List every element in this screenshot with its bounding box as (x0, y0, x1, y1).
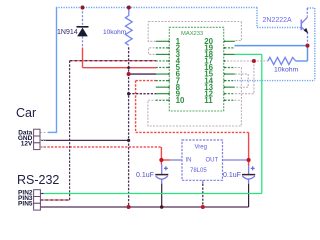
transistor Q1 2N2222A (301, 17, 308, 33)
wire: red wire to pin 5 (83, 67, 157, 69)
pin 15 (204, 70, 235, 79)
pin 19 (204, 44, 235, 53)
node: junction rail-R1 (127, 6, 131, 10)
wire: red from IN node toward Vreg (161, 159, 170, 161)
pin 4 (156, 57, 181, 66)
wire: PIN3 purple dashes overlay (40, 199, 69, 201)
diode D1 1N914 (77, 27, 89, 37)
wire: 12V connector tick (40, 146, 46, 148)
svg-text:RS-232: RS-232 (17, 173, 59, 187)
wire: pin4 mixed red base (70, 60, 157, 62)
wire: pin4 purple dashes overlay (70, 60, 157, 62)
node: junction pin17-R2 (252, 59, 256, 63)
wire: Vreg IN lead (170, 159, 182, 161)
wire: green horizontal from pin 18 (235, 53, 262, 55)
wire: red top of right cap (248, 160, 250, 166)
wire: emitter junction down to resistor R2 (307, 46, 309, 61)
wire: Data net drop to transistor base (256, 8, 258, 28)
wire: pin14 wire horizontal (235, 80, 315, 82)
wire: Car Data short blue (48, 131, 57, 133)
svg-text:Vreg: Vreg (195, 144, 207, 150)
pin 2 (156, 44, 181, 53)
wire: 5V red dashed vertical (135, 81, 137, 133)
pin 18 (204, 50, 235, 59)
wire: gray loop right drop to pin 20 (235, 22, 241, 41)
node: junction 5V-OUT-C3 (247, 158, 251, 162)
wire: Vreg GND lead (202, 180, 204, 184)
node: junction rail-diode (81, 6, 85, 10)
connector J2 RS-232 pins (34, 190, 41, 210)
svg-text:1N914: 1N914 (57, 29, 78, 36)
wire: Vreg OUT lead (223, 159, 247, 161)
node: junction C1-rail (160, 205, 164, 209)
svg-text:Car: Car (16, 106, 36, 120)
wire: Car GND purple (40, 139, 129, 141)
wire: GND bottom rail (40, 206, 248, 208)
wire: gray loop pin1 jog (148, 22, 155, 42)
wire: gray pin16 down and under IC to pin10 (148, 68, 242, 127)
pin 5 (156, 63, 181, 72)
op-amp U1 MAX233 box (169, 27, 223, 111)
svg-text:78L05: 78L05 (190, 168, 207, 174)
pin 1 (156, 37, 181, 46)
node: junction emitter-pin19 (306, 44, 310, 48)
svg-text:10kohm: 10kohm (274, 67, 299, 74)
svg-text:11: 11 (204, 96, 213, 105)
node: IC pin connection dots (168, 40, 225, 101)
wire: gray loop top over IC (148, 21, 241, 23)
svg-text:IN: IN (186, 158, 192, 164)
wire: PIN2 bright green (44, 193, 262, 195)
wire: 5V red dashed rail (136, 131, 249, 133)
connector J1 Car pins (34, 129, 40, 149)
wire: collector top hook horizontal (307, 7, 315, 9)
wire: diode anode red vertical (82, 48, 84, 68)
wire: GND connector tick (40, 139, 46, 141)
capacitor C3 0.1uF (242, 166, 255, 184)
pin 11 (204, 96, 235, 105)
svg-text:10: 10 (176, 96, 185, 105)
resistor R1 10kohm vertical (125, 16, 132, 46)
wire: Data net top rail (dotted blue) (56, 7, 257, 9)
wire: gray drop pin17-junction to pin 12 (235, 61, 254, 94)
wire: green vertical to pin 18 (261, 54, 263, 193)
pin 9 (156, 89, 181, 98)
wire: red drop 12V to Vreg IN node (160, 147, 162, 165)
wire: Vreg gnd dashed down (202, 184, 204, 207)
node: junction GND-pin9 (127, 92, 130, 95)
pin 8 (156, 83, 181, 92)
pin 13 (204, 83, 235, 92)
svg-text:PIN5: PIN5 (18, 201, 33, 208)
wire: Car Data gray stub (40, 131, 48, 133)
wire: PIN2 purple stub (40, 193, 43, 195)
svg-text:MAX233: MAX233 (181, 31, 203, 37)
pin 6 (156, 70, 181, 79)
svg-text:12V: 12V (21, 141, 33, 148)
wire: collector dashed segment above Q1 (306, 8, 308, 17)
wire: diode cathode dashed blue (82, 8, 84, 27)
pin 7 (156, 76, 181, 85)
pin 10 (156, 96, 185, 105)
pin 12 (204, 89, 235, 98)
node: junction GNDvert-rail (127, 205, 131, 209)
wire: resistor R1 top lead (128, 8, 130, 16)
wire: GND dashed vertical (128, 47, 130, 207)
wire: left cap down to rail (161, 184, 163, 207)
wire: gray pin15 to pin13 (235, 74, 248, 87)
wire: 12V red dashed from car (40, 146, 161, 148)
node: small junction red-GND cross (127, 66, 130, 69)
wire: Data net left vertical border (56, 7, 58, 132)
pin 16 (204, 63, 235, 72)
pin 14 (204, 76, 235, 85)
svg-text:0.1uF: 0.1uF (223, 172, 241, 179)
wire: purple to pin 6 (129, 73, 157, 75)
wire: emitter to pin19 blue horizontal (235, 45, 308, 47)
capacitor C1 0.1uF (155, 164, 168, 184)
wire: diode anode dashed blue (82, 36, 84, 47)
pin 3 (156, 50, 181, 59)
svg-text:0.1uF: 0.1uF (136, 172, 154, 179)
wire: PIN3 net vertical (69, 61, 71, 200)
wire: right cap down to rail (248, 184, 250, 207)
wire: gray link pin2-pin3 (149, 48, 156, 55)
wire: PIN3 mixed red base (40, 199, 69, 201)
svg-text:2N2222A: 2N2222A (263, 17, 293, 24)
wire: collector right vertical down (314, 8, 316, 81)
pin 20 (204, 37, 235, 46)
node: junction Vreg-rail (201, 205, 205, 209)
pin 17 (204, 57, 213, 66)
node: junction GND-pin6 (127, 72, 131, 76)
wire: base wire to Q1 (257, 27, 301, 29)
wire: gray pin11 tee (235, 99, 242, 101)
op-amp U2 Vreg 78L05 box (182, 140, 223, 180)
wire: purple dashed to pin 9 (129, 93, 157, 95)
wire: red dashed to pin 7 (136, 80, 157, 82)
resistor R2 10kohm horizontal (268, 57, 308, 64)
wire: gray pin17 to junction and resistor (224, 60, 268, 62)
svg-text:10kohm: 10kohm (103, 29, 126, 36)
node: junction GND-car (127, 139, 130, 142)
svg-text:OUT: OUT (206, 158, 219, 164)
wire: emitter dashed vertical (307, 32, 309, 45)
wire: red drop to Vreg OUT node (248, 132, 250, 160)
node: junction 12V-IN-C1 (159, 158, 163, 162)
